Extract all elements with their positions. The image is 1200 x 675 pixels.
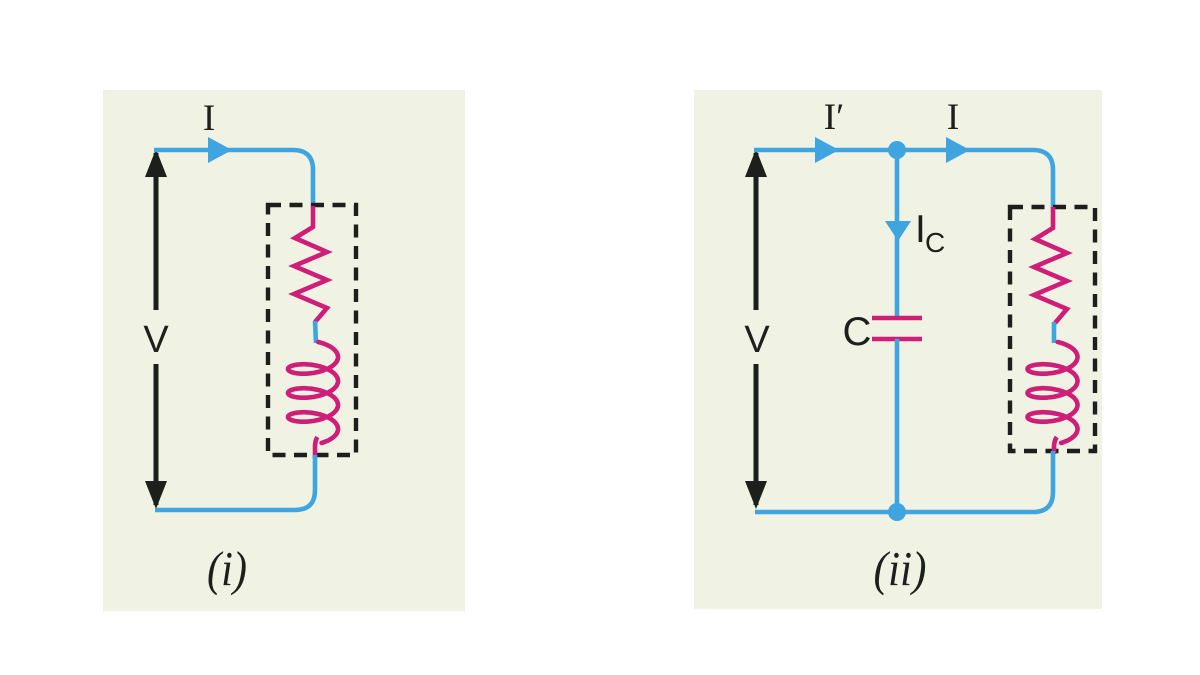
svg-text:V: V [143,319,169,361]
voltage arrowhead up [145,149,167,177]
resistor R (ii) [1034,207,1067,323]
wire bottom (ii) [755,451,1053,512]
current arrowhead Ic [885,221,911,241]
wire bottom (i) [155,455,315,510]
resistor R (i) [294,206,327,322]
svg-text:(i): (i) [207,541,247,596]
voltage arrowhead up [745,149,767,177]
current arrowhead I' [815,137,839,163]
dashed impedance box (ii) [1010,207,1095,451]
svg-text:I′: I′ [824,97,844,138]
svg-text:(ii): (ii) [874,541,927,596]
wire top (ii) [754,150,1053,208]
svg-text:V: V [744,319,770,361]
current arrowhead I [208,137,232,163]
inductor L (ii) [1028,342,1078,443]
capacitor C plate top [872,316,922,321]
inductor lead (ii) [1054,437,1057,454]
voltage arrowhead down [145,481,167,509]
capacitor branch wire lower [895,339,900,512]
inductor L (i) [288,342,338,443]
capacitor branch wire upper [895,150,900,318]
panel (i) background [103,90,465,611]
svg-text:C: C [925,227,945,258]
voltage arrow V line (bottom segment) [154,364,159,505]
wire top (i) [154,150,313,207]
panel (ii) background [694,90,1102,609]
current arrowhead I (ii) [946,137,970,163]
svg-text:C: C [843,310,872,354]
junction node bottom [888,503,906,521]
wire segment between R and L (ii) [1052,322,1057,343]
dashed impedance box (i) [268,205,356,455]
capacitor C plate bottom [872,337,922,342]
svg-text:I: I [947,97,959,138]
voltage arrow V line (bottom segment) [754,364,759,505]
voltage arrowhead down [745,481,767,509]
wire segment between R and L (i) [315,321,316,343]
voltage arrow V line (top segment) [754,153,759,310]
voltage arrow V line (top segment) [154,153,159,310]
inductor lead (i) [315,437,317,458]
junction node top [888,141,906,159]
svg-text:I: I [203,98,215,139]
